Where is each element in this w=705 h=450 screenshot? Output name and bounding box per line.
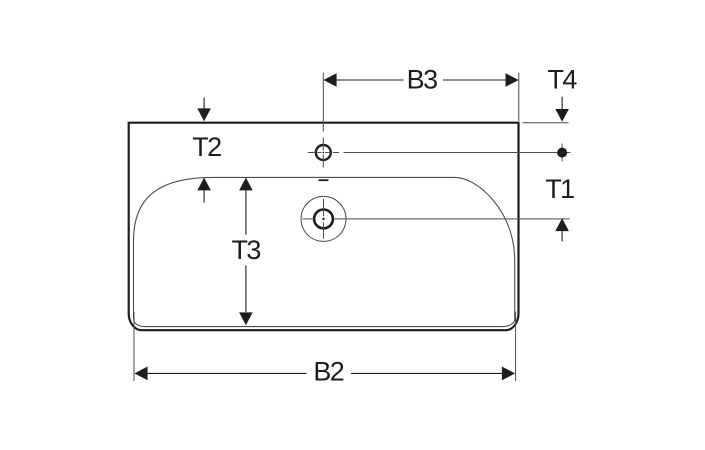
svg-text:B2: B2 [313,357,343,387]
svg-text:T3: T3 [231,235,260,265]
svg-text:T2: T2 [192,132,221,162]
svg-text:T1: T1 [545,174,574,204]
svg-text:B3: B3 [407,64,437,94]
svg-text:T4: T4 [548,65,578,95]
